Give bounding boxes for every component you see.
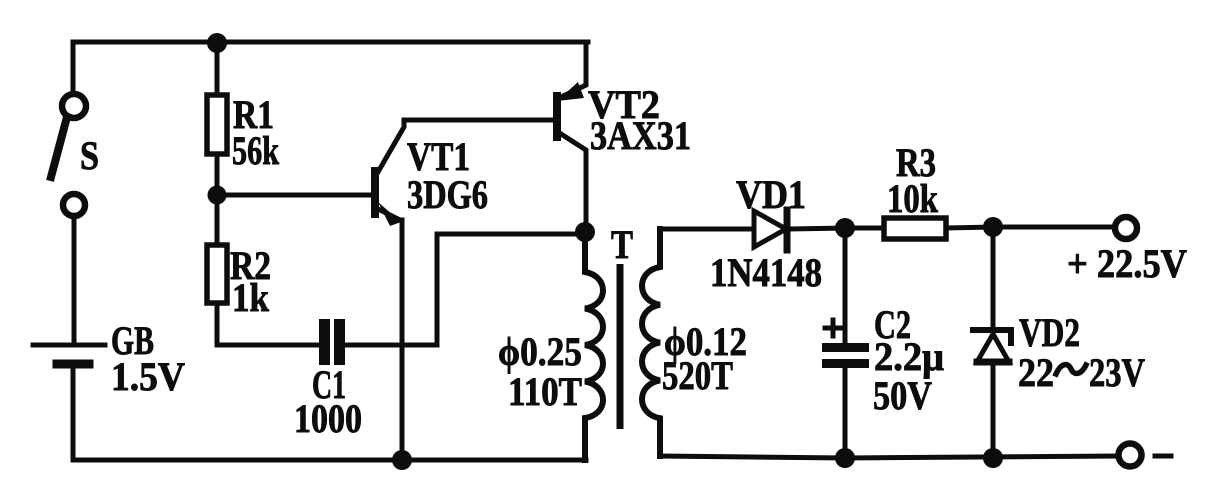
svg-text:VD2: VD2 (1019, 310, 1080, 355)
terminal + output (1067, 217, 1187, 286)
wire C1 to collector node (345, 234, 583, 345)
svg-text:1.5V: 1.5V (111, 354, 185, 399)
wire left vertical from top rail to switch (71, 42, 76, 94)
node junction emitter-bottom rail (392, 450, 412, 470)
wire bottom rail left (73, 458, 586, 463)
node junction R1-R2-base (208, 186, 227, 205)
wire base of VT1 (217, 193, 372, 198)
node junction VT2 collector / primary (575, 222, 595, 242)
svg-text:VD1: VD1 (736, 172, 806, 217)
wire R1 to node (215, 154, 220, 195)
wire top rail to R1 (215, 42, 220, 96)
transformer T core (617, 264, 624, 429)
node junction R3/VD2 (983, 217, 1003, 237)
svg-text:1k: 1k (232, 275, 270, 320)
svg-text:+ 22.5V: + 22.5V (1067, 241, 1187, 286)
wire R2 to C1 (217, 303, 318, 345)
svg-text:50V: 50V (873, 373, 932, 418)
node junction C2-bottom rail (835, 448, 855, 468)
svg-text:22: 22 (1018, 350, 1054, 395)
wire secondary top to VD1 (660, 227, 754, 232)
svg-text:520T: 520T (662, 353, 733, 398)
switch S (51, 94, 99, 216)
zener diode VD2 22~23V (973, 310, 1145, 395)
wire C2 to bottom rail (843, 368, 848, 458)
diode VD1 1N4148 (710, 172, 822, 295)
resistor R3 10k (884, 140, 946, 239)
wire switch to battery (72, 216, 77, 343)
svg-text:3AX31: 3AX31 (590, 113, 691, 158)
transformer T secondary winding (642, 229, 747, 456)
wire VT1 emitter down to bottom rail (400, 220, 405, 460)
svg-text:3DG6: 3DG6 (407, 172, 488, 217)
svg-text:1000: 1000 (294, 396, 362, 441)
wire node to R3 (845, 226, 885, 231)
wire R3 to node (946, 227, 993, 228)
battery GB 1.5V (33, 318, 185, 399)
svg-text:ϕ0.25: ϕ0.25 (498, 329, 582, 374)
svg-text:10k: 10k (887, 176, 939, 221)
wire node to VD2 (991, 227, 996, 330)
node junction VD2-bottom rail (983, 448, 1003, 468)
wire node to C2 (843, 228, 848, 344)
terminal - output (1119, 444, 1172, 467)
transformer T primary winding (498, 232, 603, 460)
wire VD2 to bottom rail (991, 362, 996, 458)
svg-text:1N4148: 1N4148 (710, 250, 822, 295)
capacitor C2 polarity + (825, 320, 841, 336)
transistor VT2 3AX31 (553, 42, 691, 230)
resistor R2 1k (207, 243, 271, 320)
svg-text:S: S (80, 133, 99, 178)
wire node to + terminal (993, 225, 1115, 230)
wire node to R2 (215, 195, 220, 246)
capacitor C2 2.2u 50V (822, 302, 944, 418)
svg-text:56k: 56k (232, 128, 280, 173)
wire top rail (73, 40, 588, 45)
node junction VD1/C2 (835, 218, 855, 238)
wire battery to bottom rail (71, 368, 76, 460)
wire VD1 to node (790, 228, 845, 229)
capacitor C1 1000 (294, 319, 362, 441)
svg-text:23V: 23V (1089, 350, 1145, 395)
svg-text:110T: 110T (508, 369, 582, 414)
wire bottom rail right (660, 456, 845, 458)
resistor R1 56k (207, 92, 280, 173)
node junction top of R1 (207, 33, 227, 53)
transistor VT1 3DG6 (371, 120, 556, 226)
svg-text:T: T (611, 222, 633, 267)
